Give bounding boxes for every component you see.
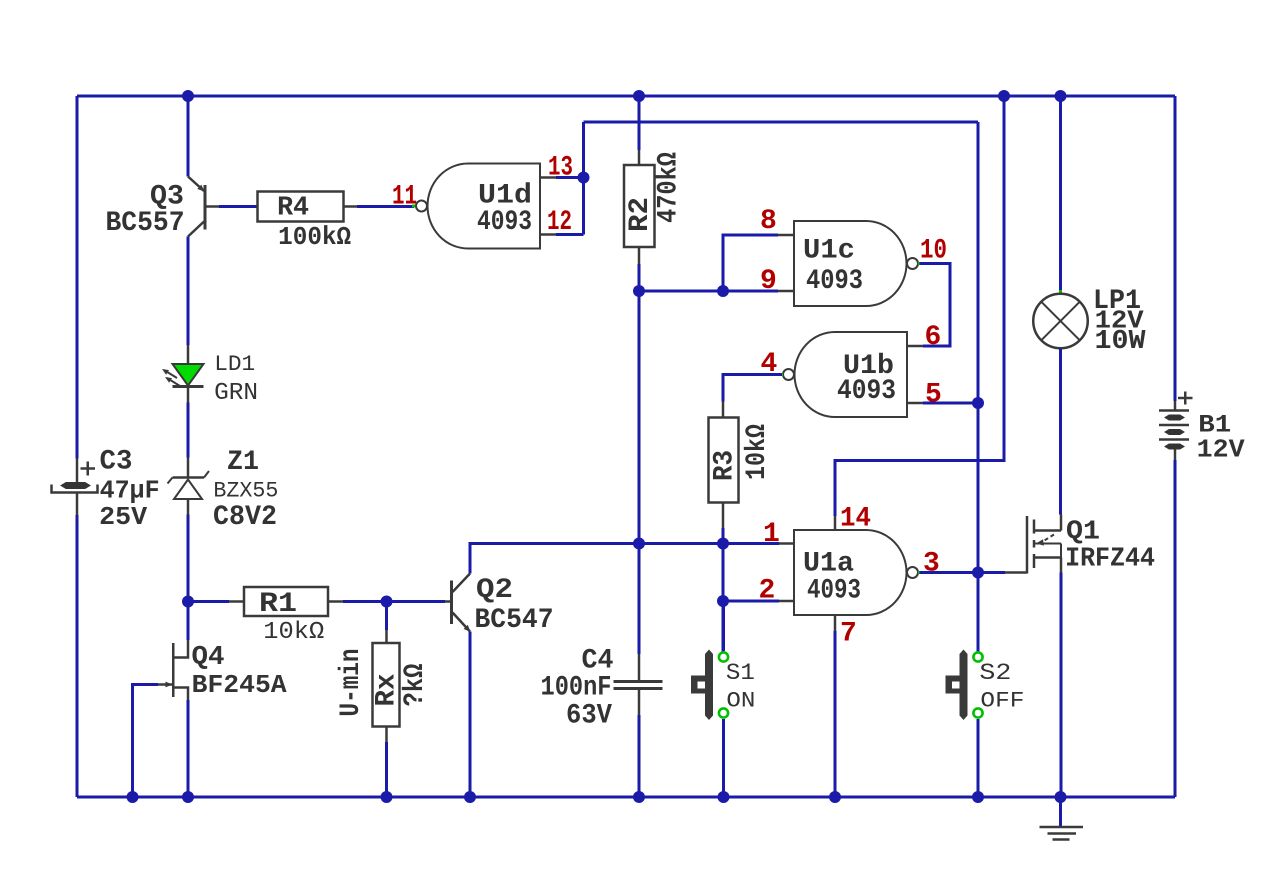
wire pin13 to junction (556, 176, 584, 179)
transistor Q1 channel dash mid (1033, 540, 1036, 548)
wire B1 top stub (1174, 401, 1177, 410)
LED LD1 cathode bar (173, 385, 204, 388)
wire S2 to bottom rail (977, 719, 980, 797)
svg-text:?kΩ: ?kΩ (400, 663, 431, 706)
wire node to Rx (385, 602, 388, 631)
switch S2 plunger bar (960, 650, 968, 721)
wire R3 bottom stub (722, 503, 725, 529)
wire Q1 source to bottom rail (1060, 573, 1063, 798)
resistor R2 body (624, 165, 655, 247)
wire R1 left stub (229, 600, 244, 603)
battery B1 plate 2 long (1159, 424, 1189, 427)
node junction pin5 (972, 397, 984, 409)
svg-text:U1c: U1c (803, 236, 855, 267)
wire node to U1c pin9 (639, 290, 778, 293)
transistor Q1 gate plate (1026, 516, 1029, 574)
pin U1a-1 stub (779, 542, 794, 545)
wire Q2 base stub (445, 600, 451, 603)
wire Rx top stub (385, 630, 388, 643)
wire Q3 collector down (187, 237, 190, 346)
transistor Q4 channel bar (172, 643, 175, 697)
wire top rail to lamp (1059, 96, 1062, 291)
svg-text:BC557: BC557 (106, 208, 185, 239)
transistor Q2 emitter lead (453, 613, 471, 632)
wire U1d inputs vertical link (582, 122, 585, 235)
node junction bottom rail at Q4 source (182, 791, 194, 803)
node junction Z1 / R1 / Q4 (182, 596, 194, 608)
op-amp/gate U1d 4093 NAND (428, 164, 540, 249)
wire C4 bottom stub (638, 690, 641, 715)
transistor Q3 emitter lead (188, 177, 204, 192)
wire C3 top stub (76, 459, 79, 483)
wire pin5 to vertical (923, 402, 978, 405)
wire Q2 emitter to bottom rail (469, 632, 472, 798)
zener Z1 cathode bar (173, 476, 205, 479)
svg-text:C3: C3 (100, 447, 133, 478)
node junction top rail at Q3 branch (182, 90, 194, 102)
wire R4 right stub (344, 205, 358, 208)
wire B1 bottom stub (1174, 450, 1177, 461)
wire node pin2 to S1 (722, 601, 725, 651)
wire C3 bottom stub (76, 493, 79, 516)
svg-text:100nF: 100nF (541, 673, 612, 704)
node junction bottom rail at S2 (972, 791, 984, 803)
wire R1 to Rx node (343, 600, 387, 603)
svg-text:63V: 63V (566, 701, 612, 732)
svg-text:S1: S1 (726, 660, 755, 686)
pin mark U1a output (918, 571, 921, 574)
wire pin1 (723, 542, 779, 545)
svg-text:470kΩ: 470kΩ (654, 152, 685, 223)
lamp LP1 cross diagonal 1 (1041, 302, 1080, 341)
pin mark U1d output (412, 205, 415, 208)
transistor Q1 source stub (1060, 558, 1063, 573)
transistor Q4 source lead (175, 688, 189, 701)
svg-text:3: 3 (923, 549, 940, 580)
svg-text:6: 6 (925, 322, 942, 353)
svg-text:Q1: Q1 (1066, 518, 1100, 548)
wire left rail lower segment (76, 515, 79, 797)
wire top supply rail (77, 95, 1175, 98)
wire R2 top stub (638, 150, 641, 165)
node junction top rail at pin14 branch (998, 90, 1010, 102)
svg-text:Q4: Q4 (192, 643, 225, 673)
wire node to Q4 drain (187, 602, 190, 641)
svg-text:Rx: Rx (372, 673, 403, 706)
pin U1a-7 stub (834, 615, 837, 631)
node junction top rail at lamp branch (1055, 90, 1067, 102)
ground bar 1 (1040, 826, 1084, 829)
wire Rx bottom stub (385, 727, 388, 743)
node junction bottom rail at Q2 emitter (464, 791, 476, 803)
node junction bottom rail at S1 (718, 791, 730, 803)
wire right rail lower (from battery) (1174, 460, 1177, 797)
svg-text:10kΩ: 10kΩ (742, 424, 773, 480)
pin U1a-2 stub (779, 600, 794, 603)
svg-text:BF245A: BF245A (192, 670, 287, 700)
svg-text:10kΩ: 10kΩ (263, 619, 324, 646)
ground bar 3 (1053, 838, 1070, 841)
wire U1c output to U1b pin6 (920, 264, 951, 347)
svg-text:R2: R2 (625, 197, 656, 232)
capacitor C4 bottom plate (614, 687, 663, 690)
zener Z1 bar right hook (204, 471, 209, 478)
switch S2 top terminal (973, 652, 982, 661)
svg-text:R3: R3 (710, 450, 741, 481)
LED arrow 1 shaft (164, 370, 177, 378)
wire R1 right stub (328, 600, 343, 603)
battery B1 plate 2 short (1164, 429, 1185, 435)
transistor Q3 base bar (204, 185, 207, 230)
svg-text:4093: 4093 (806, 266, 863, 297)
svg-text:R1: R1 (259, 589, 297, 620)
svg-text:BC547: BC547 (475, 605, 554, 636)
capacitor C4 top plate (614, 680, 663, 683)
svg-text:IRFZ44: IRFZ44 (1065, 545, 1155, 575)
wire Q2 collector up and right (470, 544, 639, 574)
wire feedback top horizontal (584, 121, 979, 124)
node junction pin8/pin9 (717, 285, 729, 297)
node junction pin2 (717, 595, 729, 607)
battery B1 plate 1 short (1164, 415, 1185, 421)
wire pin8 link (723, 235, 778, 291)
transistor Q4 drain lead (175, 640, 189, 658)
node junction bottom rail at Q4 gate (127, 791, 139, 803)
capacitor C3 negative plate (52, 485, 98, 493)
LED LD1 triangle (173, 364, 204, 386)
svg-text:OFF: OFF (980, 689, 1024, 714)
zener Z1 bar left hook (168, 478, 173, 484)
plus sign C3 vertical (87, 462, 90, 476)
wire Q3 base stub (207, 205, 220, 208)
wire top rail to R2 (638, 96, 641, 150)
transistor Q1 drain lead (1035, 529, 1061, 532)
node junction R3 / pin1 (717, 538, 729, 550)
wire right rail upper (to battery) (1174, 96, 1177, 401)
resistor R3 body (709, 418, 739, 503)
resistor R4 body (258, 192, 344, 222)
node junction bottom rail at Rx (381, 791, 393, 803)
wire Z1 top stub (187, 458, 190, 478)
wire S1 to bottom rail (722, 719, 725, 797)
transistor Q1 body lead (1035, 543, 1061, 545)
switch S2 button cap (946, 676, 963, 694)
transistor Q1 body arrow shaft (dashed) (1042, 535, 1054, 543)
pin U1d-12 stub (540, 233, 556, 236)
pin U1c-9 stub (778, 290, 794, 293)
battery B1 plate 3 long (1159, 438, 1189, 441)
battery B1 plate 1 long (1159, 409, 1189, 412)
wire node to Q2 base (387, 600, 446, 603)
wire Z1 bottom stub (187, 499, 190, 515)
pin mark LP1 top (1059, 290, 1062, 293)
svg-text:GRN: GRN (214, 380, 258, 407)
plus sign B1 horizontal (1178, 397, 1193, 400)
transistor Q2 base bar (450, 581, 453, 625)
plus sign C3 horizontal (81, 467, 96, 470)
svg-text:10: 10 (920, 236, 947, 267)
wire R4 to U1d output bubble (357, 205, 414, 208)
wire U1b output to R3 top (723, 375, 782, 402)
wire C4 top (638, 544, 641, 655)
transistor Q3 emitter arrow (PNP) (197, 185, 204, 192)
svg-text:U-min: U-min (336, 649, 367, 717)
wire Z1 to node (187, 515, 190, 602)
switch S1 bottom terminal (719, 708, 728, 717)
transistor Q1 body arrow (1036, 539, 1044, 545)
pin U1c-8 stub (778, 234, 794, 237)
wire pin2 (723, 600, 779, 603)
op-amp/gate U1b 4093 NAND (795, 332, 907, 417)
wire LED top stub (187, 345, 190, 364)
wire R2 node down to C4 (638, 291, 641, 544)
svg-text:Q2: Q2 (476, 575, 513, 606)
svg-text:47µF: 47µF (100, 476, 160, 506)
svg-text:1: 1 (763, 519, 780, 550)
wire pin7 to bottom rail (834, 631, 837, 797)
wire pin14 to top rail (835, 96, 1004, 516)
transistor Q2 collector lead (453, 574, 471, 593)
wire C4 to bottom rail (638, 715, 641, 797)
svg-text:C8V2: C8V2 (213, 502, 277, 533)
wire pin3 node to Q1 gate (978, 571, 1005, 574)
wire node to R1 (188, 600, 229, 603)
wire Q4 gate (133, 685, 159, 798)
wire R2 bottom stub (638, 247, 641, 264)
node junction collector / C4 (633, 538, 645, 550)
wire node pin1 to pin2 vertical (722, 544, 725, 652)
node junction pin3 / Q1 gate (972, 567, 984, 579)
battery B1 plate 3 short (1164, 444, 1185, 450)
pin U1a-14 stub (834, 516, 837, 530)
wire lamp to Q1 drain (1059, 349, 1062, 515)
wire collector node to R3 node (639, 542, 723, 545)
pin U1b-6 stub (907, 345, 923, 348)
svg-text:LD1: LD1 (214, 352, 255, 377)
wire R2 to node (638, 264, 641, 291)
capacitor C3 positive plate (61, 483, 90, 489)
svg-text:100kΩ: 100kΩ (278, 222, 351, 252)
node junction R1 / Rx (381, 596, 393, 608)
lamp LP1 circle (1033, 294, 1088, 349)
wire Rx to bottom rail (385, 742, 388, 797)
wire LED bottom stub (187, 387, 190, 403)
switch S1 top terminal (719, 652, 728, 661)
transistor Q1 channel dash bottom (1033, 554, 1036, 568)
transistor Q1 channel dash top (1033, 520, 1036, 534)
svg-text:11: 11 (392, 182, 417, 213)
transistor Q3 collector lead (188, 222, 204, 237)
svg-text:ON: ON (726, 689, 755, 714)
svg-text:5: 5 (925, 380, 942, 411)
LED arrow 2 head (165, 377, 172, 383)
pin mark U1c output (918, 262, 921, 265)
ground bar 2 (1048, 832, 1077, 835)
transistor Q1 source lead (1035, 556, 1061, 559)
lamp LP1 cross diagonal 2 (1041, 302, 1080, 341)
transistor Q4 gate lead (158, 683, 172, 686)
LED arrow 1 head (162, 369, 169, 375)
svg-text:8: 8 (760, 206, 777, 237)
wire Q3 emitter from top rail (187, 96, 190, 177)
svg-text:Z1: Z1 (227, 447, 259, 478)
op-amp/gate U1c 4093 NAND (794, 221, 907, 306)
resistor R1 body (244, 587, 328, 616)
node junction U1d inputs (578, 172, 590, 184)
transistor Q1 body-source link (1060, 544, 1062, 558)
transistor Q2 emitter arrow (NPN) (464, 625, 471, 632)
wire C4 top stub (638, 654, 641, 680)
wire Q3 base to R4 (219, 205, 257, 208)
svg-text:25V: 25V (99, 502, 147, 532)
svg-text:10W: 10W (1095, 327, 1147, 357)
switch S1 plunger bar (705, 650, 713, 721)
wire feedback right vertical (977, 122, 980, 652)
svg-text:4093: 4093 (837, 376, 896, 407)
switch S1 button cap (691, 676, 708, 694)
svg-text:R4: R4 (277, 194, 309, 224)
wire LED to zener Z1 (187, 403, 190, 458)
node junction bottom rail at ground symbol (1055, 791, 1067, 803)
LED arrow 2 shaft (167, 378, 180, 386)
svg-text:BZX55: BZX55 (213, 479, 278, 504)
transistor Q1 gate lead (1005, 571, 1027, 574)
switch S2 bottom terminal (973, 708, 982, 717)
wire left supply rail (76, 96, 79, 459)
wire bottom rail to ground (1059, 797, 1062, 826)
svg-text:S2: S2 (979, 660, 1011, 686)
svg-text:4093: 4093 (477, 207, 532, 238)
node junction bottom rail at C4 (633, 791, 645, 803)
node junction bottom rail at pin7 (829, 791, 841, 803)
op-amp/gate U1a 4093 NAND (794, 530, 907, 615)
svg-text:4093: 4093 (807, 576, 861, 607)
pin U1b-5 stub (907, 402, 923, 405)
node junction top rail at R2 branch (633, 90, 645, 102)
wire R3 to node (722, 528, 725, 544)
pin mark U1b output (780, 373, 783, 376)
svg-text:7: 7 (840, 619, 857, 650)
resistor Rx body (373, 643, 400, 727)
wire Q4 source to bottom rail (187, 700, 190, 797)
svg-text:14: 14 (840, 504, 871, 535)
wire pin12 to vertical (556, 233, 584, 236)
wire bottom ground rail (77, 796, 1175, 799)
plus sign B1 vertical (1184, 392, 1187, 405)
node junction R2 bottom (633, 285, 645, 297)
svg-text:9: 9 (760, 266, 777, 297)
wire R3 top stub (722, 402, 725, 418)
transistor Q4 gate arrow (166, 682, 173, 688)
wire U1a output pin3 (920, 571, 979, 574)
zener Z1 triangle (174, 480, 202, 500)
svg-text:12V: 12V (1197, 435, 1245, 465)
transistor Q1 drain stub (1060, 515, 1063, 531)
pin U1d-13 stub (540, 176, 556, 179)
